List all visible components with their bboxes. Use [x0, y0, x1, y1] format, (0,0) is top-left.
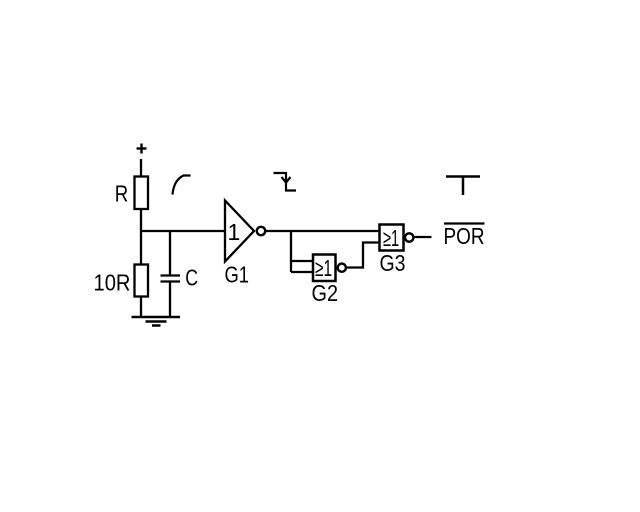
svg-text:≥1: ≥1: [315, 255, 332, 281]
G1 output bubble: [257, 227, 265, 235]
OR gate G2: [313, 255, 336, 282]
wire R to node and 10R: [140, 209, 142, 265]
wire supply to R: [140, 159, 142, 177]
wire G1 output to G3 input: [266, 230, 380, 232]
G2 output bubble: [338, 264, 346, 272]
svg-text:10R: 10R: [94, 270, 131, 296]
wire 10R to ground: [140, 297, 142, 318]
wire branch down to G2: [290, 231, 292, 272]
ground: [132, 317, 181, 326]
pulse waveform icon: [446, 177, 480, 196]
resistor R: [135, 177, 149, 210]
wire capacitor to ground: [169, 282, 171, 317]
svg-text:C: C: [185, 265, 198, 291]
resistor 10R: [135, 265, 149, 297]
node A horizontal wire to G1 input: [140, 230, 225, 232]
G2 lower input wire: [291, 271, 313, 273]
wire G3 output to POR: [414, 236, 432, 238]
wire node to capacitor: [169, 231, 171, 275]
falling edge waveform icon: [274, 173, 297, 191]
svg-text:G2: G2: [312, 280, 339, 306]
RC charge curve icon: [173, 176, 191, 195]
G3 output bubble: [405, 233, 413, 241]
G2 upper input wire: [291, 260, 313, 262]
inverter G1: [225, 201, 254, 262]
svg-text:G3: G3: [380, 250, 406, 276]
power supply + symbol: [137, 144, 147, 154]
OR gate G3: [380, 225, 404, 251]
svg-text:POR: POR: [444, 223, 485, 249]
svg-text:R: R: [115, 181, 129, 207]
POR overline: [444, 222, 485, 224]
svg-text:1: 1: [228, 219, 241, 245]
wire G2 output to G3 lower input: [346, 243, 380, 268]
svg-text:≥1: ≥1: [383, 225, 399, 251]
svg-text:G1: G1: [225, 262, 250, 288]
capacitor C: [161, 276, 181, 282]
